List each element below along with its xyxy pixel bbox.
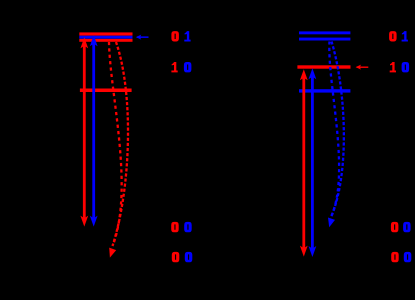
level blue lower (299, 89, 350, 92)
label |00> row1 right (391, 222, 411, 232)
decay dashed curve B blue (332, 42, 344, 217)
decay dashed curve B red (113, 42, 129, 246)
pointer arrow blue (to |01> level) (136, 35, 149, 40)
label |00> row2 left (172, 252, 193, 262)
decay arrowhead red (109, 248, 116, 258)
level |01> upper blue line (299, 31, 350, 34)
drive arrow blue vertical (double-headed) (90, 35, 98, 226)
drive arrow blue vertical (double-headed) (309, 68, 317, 257)
label |01> right (389, 31, 408, 41)
label |10> left (171, 62, 191, 72)
drive arrow red vertical (double-headed) (80, 37, 88, 226)
level |10> red (detuned) (80, 89, 132, 93)
level |01> lower blue line (299, 38, 350, 41)
decay dashed curve A blue (329, 42, 339, 218)
pointer arrow red (to |10> level) (356, 65, 369, 70)
label |10> right (390, 62, 409, 72)
decay arrowhead blue (328, 218, 335, 228)
label |00> row1 left (171, 222, 192, 232)
level |01>-|10> dressed upper red line (79, 32, 132, 35)
label |00> row2 right (391, 252, 411, 262)
label |01> left (171, 31, 190, 41)
level |01> blue line (79, 36, 132, 39)
level dressed lower red line (79, 39, 132, 42)
decay dashed curve A red (109, 42, 122, 245)
level |10> red (297, 65, 350, 68)
drive arrow red vertical (double-headed) (300, 69, 308, 256)
